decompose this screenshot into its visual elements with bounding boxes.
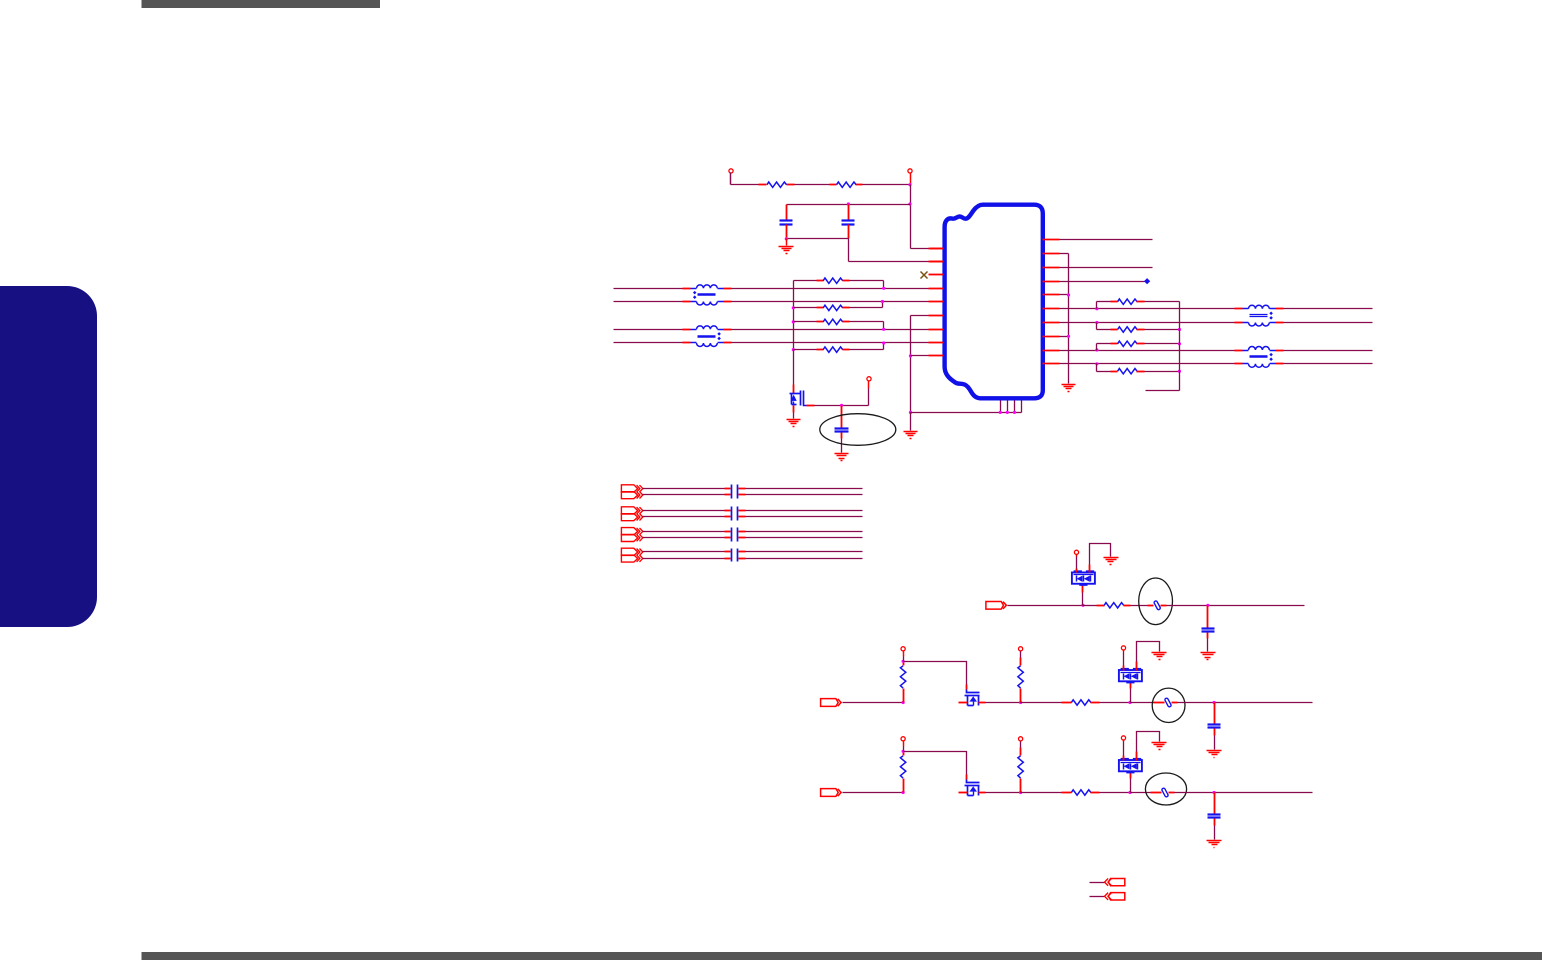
- ground G8 wire: [1137, 642, 1160, 671]
- pin B3: [1014, 401, 1016, 413]
- node lad2: [792, 306, 795, 309]
- power pin P2: [908, 169, 912, 185]
- capacitor C7: [1202, 606, 1215, 652]
- capacitor C10: [1208, 793, 1221, 840]
- resistor R3p pull-up: [900, 752, 905, 793]
- resistor R2: [837, 182, 857, 187]
- wire FB3 out top: [1284, 308, 1373, 310]
- wire pair1 left top: [614, 288, 683, 290]
- capacitor C3a: [731, 485, 733, 499]
- ground G1: [779, 239, 794, 254]
- resistor R2q pull-up: [1018, 651, 1023, 703]
- wire cap rail top: [787, 204, 911, 206]
- resistor R2p pull-up: [900, 662, 905, 703]
- node bottomrail: [909, 411, 912, 414]
- fuse F2: [1164, 698, 1171, 708]
- wire R3 net: [1060, 267, 1153, 269]
- pin L8: [929, 342, 944, 344]
- op-amp U1 body outline: [945, 205, 1043, 399]
- wire R2 corner: [1060, 253, 1069, 255]
- wire FB3 out bottom: [1284, 322, 1373, 324]
- pin R3: [1043, 267, 1060, 269]
- ground G9 wire: [1137, 732, 1160, 761]
- wire right gnd vertical: [1068, 254, 1070, 384]
- pin R4: [1043, 281, 1060, 283]
- power pin P9: [1121, 646, 1125, 671]
- node rb2: [1095, 321, 1098, 324]
- resistor R1: [767, 182, 787, 187]
- power pin P7: [1019, 647, 1023, 651]
- pin B2: [1007, 401, 1009, 413]
- node Bp2: [1006, 411, 1009, 414]
- choke FB2: [683, 326, 732, 347]
- wire S2 main d: [1100, 702, 1131, 704]
- wire bus4 bot-right: [739, 558, 863, 560]
- ground G6 wire: [1090, 544, 1111, 573]
- highlight ellipse E1: [820, 414, 896, 446]
- pin R5: [1043, 294, 1060, 296]
- pin L2: [929, 261, 944, 263]
- bottom gray footer bar: [142, 952, 1542, 960]
- power pin P8: [1019, 737, 1023, 741]
- node Bp3: [1013, 411, 1016, 414]
- wire bus2 bot-left: [643, 516, 731, 518]
- node rr3: [1178, 342, 1181, 345]
- wire S2 source lead: [979, 702, 986, 704]
- wire bus2 top-left: [643, 510, 731, 512]
- wire cap rail bottom: [787, 238, 849, 240]
- wire bus3 bot-left: [643, 537, 731, 539]
- ground G4: [835, 454, 849, 461]
- wire FB4 out bottom: [1284, 363, 1373, 365]
- wire S3 main d: [1100, 792, 1131, 794]
- wire pair2 left bottom: [614, 342, 683, 344]
- pin R1: [1043, 239, 1060, 241]
- wire S2 main a: [843, 702, 904, 704]
- resistor R6: [794, 343, 884, 353]
- node S3a: [902, 791, 905, 794]
- power pin P1: [729, 169, 733, 185]
- capacitor C3b: [737, 485, 739, 499]
- wire out1: [1090, 882, 1105, 884]
- pin L1: [929, 248, 944, 250]
- choke FB4: [1235, 347, 1284, 368]
- pin L6: [929, 315, 944, 317]
- ground G11: [1207, 751, 1222, 758]
- power pin P5: [901, 647, 905, 662]
- node S3pu: [902, 750, 905, 753]
- resistor R2s series: [1021, 700, 1100, 705]
- top gray header bar: [142, 0, 381, 8]
- node S3d: [1213, 791, 1216, 794]
- ground G3 under Q1: [787, 406, 801, 427]
- transistor Q1: [790, 350, 807, 406]
- resistor R8: [1097, 323, 1180, 333]
- node D: [785, 237, 788, 240]
- node S2c: [1128, 701, 1131, 704]
- node lad3: [792, 320, 795, 323]
- capacitor C6a: [731, 549, 733, 562]
- node S1a: [1081, 604, 1084, 607]
- resistor R9: [1097, 341, 1180, 350]
- wire S3 source lead: [979, 792, 986, 794]
- wire out2: [1090, 896, 1105, 898]
- power pin P3: [867, 377, 871, 406]
- pin R10: [1043, 363, 1060, 365]
- wire S1 main b: [1131, 605, 1148, 607]
- pin R7: [1043, 322, 1060, 324]
- capacitor C5a: [731, 528, 733, 542]
- node Rv2: [1067, 335, 1070, 338]
- input tag T3: [821, 789, 842, 797]
- wire FB4 out top: [1284, 350, 1373, 352]
- node XT: [840, 404, 843, 407]
- resistor R5: [794, 319, 884, 329]
- wire R6 net: [1060, 308, 1235, 310]
- wire R1 net: [1060, 239, 1153, 241]
- wire R4 net: [1060, 281, 1145, 283]
- output tag T4: [1105, 878, 1125, 885]
- node C: [847, 202, 850, 205]
- fuse F3 leads: [1131, 792, 1175, 794]
- transistor Q3: [965, 780, 980, 796]
- capacitor C1: [780, 205, 793, 239]
- wire pair2 left top: [614, 329, 683, 331]
- esd diode D4: [1119, 758, 1142, 793]
- resistor R4: [794, 302, 883, 311]
- wire bus2 top-right: [739, 510, 863, 512]
- highlight ellipse E2: [1139, 578, 1173, 625]
- wire bus1 top-left: [643, 488, 731, 490]
- esd diode D3: [1119, 668, 1142, 703]
- fuse F1 leads: [1148, 605, 1167, 607]
- pin B4: [1021, 401, 1023, 413]
- ground G12: [1207, 841, 1222, 848]
- wire bus2 bot-right: [739, 516, 863, 518]
- wire S2 gate: [904, 662, 967, 690]
- choke FB3: [1235, 305, 1284, 326]
- fuse F2 leads: [1131, 702, 1178, 704]
- input tag T2: [821, 699, 842, 707]
- ground G7: [1201, 653, 1216, 660]
- wire S3 main a: [843, 792, 904, 794]
- wire ladder-right vertical: [1146, 302, 1180, 391]
- pin L5: [929, 301, 944, 303]
- pin R8: [1043, 336, 1060, 338]
- wire gate to crystal node: [807, 405, 869, 407]
- wire bus3 top-left: [643, 531, 731, 533]
- node rr4: [1178, 370, 1181, 373]
- capacitor/crystal Y1: [835, 406, 849, 453]
- capacitor C5b: [737, 528, 739, 542]
- wire to pin L2: [849, 239, 944, 262]
- wire pair1 left bottom: [614, 301, 683, 303]
- offpage diamond: [1144, 278, 1150, 284]
- wire S3 gate: [904, 752, 967, 780]
- power pin P4: [1074, 550, 1078, 572]
- node Rv1: [1067, 293, 1070, 296]
- wire ladder-left vertical: [793, 281, 795, 350]
- pin L7: [929, 329, 944, 331]
- bus connector J4: [621, 548, 642, 562]
- wire bus1 top-right: [739, 488, 863, 490]
- no-connect X on pin L3: [921, 272, 928, 279]
- wire pair2 right bottom: [732, 342, 929, 344]
- pin L9: [929, 355, 944, 357]
- pin L3: [929, 274, 944, 276]
- fuse F3: [1161, 788, 1168, 798]
- pin R2: [1043, 253, 1060, 255]
- capacitor C4b: [737, 507, 739, 521]
- ground G9: [1152, 743, 1167, 750]
- ground G6: [1104, 558, 1119, 565]
- capacitor C4a: [731, 507, 733, 521]
- node R6out: [882, 341, 885, 344]
- capacitor C9: [1208, 703, 1221, 750]
- wire L6 corner: [911, 315, 929, 317]
- node S2b: [1019, 701, 1022, 704]
- wire vertical to pin: [911, 185, 944, 249]
- wire S1 main c: [1167, 605, 1305, 607]
- node R5out: [882, 328, 885, 331]
- wire L9 stub: [911, 355, 929, 357]
- ground G8: [1152, 653, 1167, 660]
- wire pair1 right bottom: [732, 301, 929, 303]
- wire R8 stub: [1060, 336, 1069, 338]
- resistor R7: [1097, 299, 1180, 309]
- choke FB1: [683, 285, 732, 305]
- wire R7 net: [1060, 322, 1235, 324]
- wire bus3 bot-right: [739, 537, 863, 539]
- node rb3: [1095, 348, 1098, 351]
- node R4out: [881, 300, 884, 303]
- wire bottom rail: [911, 412, 1022, 414]
- wire bus3 top-right: [739, 531, 863, 533]
- wire bus4 top-right: [739, 551, 863, 553]
- wire S1 main a: [1008, 605, 1083, 607]
- ground G5: [1062, 385, 1076, 392]
- node B: [908, 202, 911, 205]
- wire R5 stub: [1060, 294, 1069, 296]
- wire bus1 bot-left: [643, 494, 731, 496]
- resistor R3s series: [1021, 790, 1100, 795]
- node S3c: [1128, 791, 1131, 794]
- transistor Q2: [965, 690, 980, 706]
- resistor R10: [1097, 364, 1180, 374]
- capacitor C6b: [737, 549, 739, 562]
- pin B1: [1000, 401, 1002, 413]
- fuse F1: [1154, 600, 1161, 610]
- bus connector J3: [621, 528, 642, 542]
- wire S2 drain lead: [959, 702, 968, 704]
- wire R10 net: [1060, 363, 1235, 365]
- node S3b: [1019, 791, 1022, 794]
- wire top row: [731, 184, 911, 186]
- wire bus4 bot-left: [643, 558, 731, 560]
- output tag T5: [1105, 893, 1125, 900]
- pin L4: [929, 288, 944, 290]
- wire S2 main e: [1178, 702, 1313, 704]
- wire S3 drain lead: [959, 792, 968, 794]
- capacitor C2: [842, 205, 855, 239]
- wire R9 net: [1060, 350, 1235, 352]
- node Bp1: [999, 411, 1002, 414]
- pin R9: [1043, 350, 1060, 352]
- node R3out: [882, 287, 885, 290]
- node rr2: [1178, 328, 1181, 331]
- node S2pu: [902, 660, 905, 663]
- resistor R3: [794, 278, 884, 289]
- wire pair1 right top: [732, 288, 929, 290]
- left navy chapter tab: [0, 286, 97, 627]
- pin R6: [1043, 308, 1060, 310]
- resistor R11: [1083, 603, 1131, 608]
- node lad4: [792, 348, 795, 351]
- bus connector J2: [621, 507, 642, 521]
- input tag T1: [986, 601, 1007, 609]
- power pin P10: [1121, 736, 1125, 761]
- wire S3 main b: [986, 792, 1021, 794]
- node A: [908, 183, 911, 186]
- node rb1: [1095, 307, 1098, 310]
- resistor R3q pull-up: [1018, 741, 1023, 793]
- wire S3 main e: [1175, 792, 1313, 794]
- wire bus1 bot-right: [739, 494, 863, 496]
- wire vertical net: [910, 316, 912, 413]
- node S1b: [1206, 604, 1209, 607]
- node rb4: [1095, 362, 1098, 365]
- esd diode D1: [1072, 570, 1095, 605]
- node S2d: [1213, 701, 1216, 704]
- wire bus4 top-left: [643, 551, 731, 553]
- highlight ellipse E3: [1152, 688, 1185, 722]
- node S2a: [902, 701, 905, 704]
- wire pair2 right top: [732, 329, 929, 331]
- ground G2: [904, 413, 918, 439]
- wire S2 main b: [986, 702, 1021, 704]
- highlight ellipse E4: [1145, 773, 1186, 805]
- bus connector J1: [621, 485, 642, 499]
- power pin P6: [901, 737, 905, 752]
- node L9: [909, 354, 912, 357]
